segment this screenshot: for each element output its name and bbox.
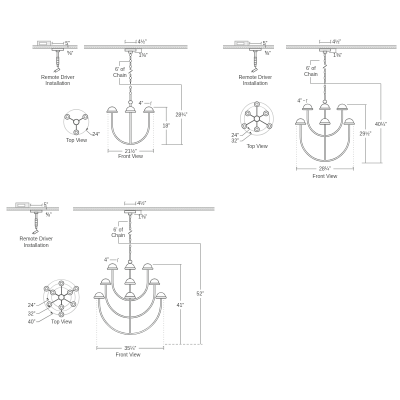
svg-text:40¼”: 40¼” <box>375 122 387 128</box>
ceiling strip Q3 remote <box>7 208 60 211</box>
Q3 cup tier2 right <box>149 279 160 285</box>
Q1 dim 21 1/2-inch <box>108 148 154 155</box>
Q1 dimension 5" <box>52 41 70 47</box>
svg-text:Chain: Chain <box>111 233 125 239</box>
Q1 top view boundary circles <box>64 109 89 134</box>
Q3 dim 35 1/4-inch <box>97 346 164 352</box>
Q3 extension lines width <box>97 300 164 348</box>
ceiling strip Q2 main <box>286 46 397 49</box>
Q1 dimension 4 1/2" <box>125 38 147 45</box>
Q2 chain <box>322 53 327 83</box>
Q2 top view leader 32&#8221; <box>231 132 251 145</box>
Q3 inner arm U <box>113 270 148 300</box>
Q2 top view centre hub <box>254 116 260 122</box>
Q1 dimension 1 3/8" <box>135 49 148 59</box>
Q1 finial <box>129 101 133 104</box>
Q3 dimension 4 1/2" <box>125 200 147 207</box>
Q1 cup centre <box>125 107 136 113</box>
svg-text:4”: 4” <box>104 258 109 264</box>
svg-text:32”: 32” <box>28 311 36 317</box>
Q2 dim 29 1/2-inch <box>359 105 371 163</box>
Q2 remote canopy and driver stem <box>250 48 262 66</box>
svg-text:Top View: Top View <box>51 319 72 325</box>
Q3 dimension 5" <box>30 203 48 209</box>
Q3 dim 41-inch <box>177 264 185 344</box>
svg-text:4½”: 4½” <box>332 38 341 45</box>
Q1 lower chain <box>130 86 132 95</box>
ceiling strip Q2 remote <box>223 46 274 49</box>
Q3 cup tier1 right <box>142 264 153 270</box>
Q2 centre stem <box>324 103 326 161</box>
Q3 finial <box>128 260 132 263</box>
svg-text:4½”: 4½” <box>138 38 147 45</box>
Q1 arm U <box>112 113 149 144</box>
Q3 hang rod <box>129 255 131 261</box>
svg-text:Installation: Installation <box>45 81 70 87</box>
Q3 dim 52-inch <box>197 243 205 344</box>
ceiling strip Q1 remote <box>33 46 78 49</box>
Q3 remote driver box <box>16 203 29 208</box>
svg-text:32”: 32” <box>231 139 239 145</box>
svg-text:Top View: Top View <box>66 138 87 144</box>
Q2 cup tier1 centre <box>320 104 331 110</box>
Q2 extension lines width <box>296 126 353 169</box>
svg-text:40”: 40” <box>28 320 36 326</box>
svg-text:28¼”: 28¼” <box>319 167 331 173</box>
Q1 dim 28 3/4-inch <box>175 85 187 145</box>
Q2 canopy <box>320 49 331 53</box>
Q1 bottom tick line <box>162 144 184 146</box>
Q2 remote driver box <box>235 41 248 46</box>
svg-text:18”: 18” <box>162 123 170 129</box>
Q1 hang rod <box>130 95 132 101</box>
Q2 bottom tick line <box>362 162 383 164</box>
svg-text:Front View: Front View <box>313 174 338 180</box>
Q1 centre stem <box>130 104 132 144</box>
Q3 top view centre hub <box>59 295 65 301</box>
Q3 cup tier1 left <box>107 264 118 270</box>
Q2 cup tier2 centre <box>320 119 331 125</box>
svg-text:4”: 4” <box>139 101 144 107</box>
Q3 6-foot chain bracket <box>111 222 127 244</box>
Q2 lower chain <box>324 85 326 95</box>
Q3 cup tier2 centre <box>125 279 136 285</box>
Q3 top view leader 32&#8221; <box>28 305 51 317</box>
svg-text:52”: 52” <box>197 292 205 298</box>
Q3 middle arm U <box>106 285 155 318</box>
Q1 leader to overall-height dim <box>120 84 182 86</box>
Q2 dimension 1 3/8" <box>329 49 342 59</box>
Q1 label <box>41 75 75 87</box>
Q3 cup tier3 left <box>94 292 105 298</box>
svg-text:⅝”: ⅝” <box>46 213 52 219</box>
Q3 top view leader 24&#8221; <box>28 298 49 309</box>
Q2 top view arms and sockets <box>244 104 269 129</box>
svg-text:⅝”: ⅝” <box>265 51 271 57</box>
svg-text:Remote Driver: Remote Driver <box>19 237 53 243</box>
svg-text:Chain: Chain <box>113 73 127 79</box>
Q2 dimension 5" <box>250 41 268 47</box>
Q2 dim 40 1/4-inch <box>375 84 387 163</box>
svg-text:Remote Driver: Remote Driver <box>239 75 273 81</box>
svg-text:Remote Driver: Remote Driver <box>41 75 75 81</box>
Q1 top view centre hub <box>74 119 80 125</box>
Q3 cup tier2 left <box>100 279 111 285</box>
Q2 top view leader 24&#8221; <box>231 127 249 139</box>
Q1 top view leader 24&#8221; <box>86 128 100 138</box>
Q3 cup tier3 centre <box>125 292 136 298</box>
Q2 top tick 29 1/2-inch <box>347 104 367 106</box>
svg-text:29½”: 29½” <box>359 131 371 138</box>
Q2 dim 28 1/4-inch <box>296 167 353 173</box>
Q3 top view leader 40&#8221; <box>28 312 53 326</box>
Q1 canopy <box>125 49 136 53</box>
Q3 wire pigtail <box>32 228 38 234</box>
Q1 remote driver box <box>37 41 50 46</box>
Q2 label <box>239 75 273 87</box>
Q3 candle 4-inch dim <box>104 258 119 264</box>
Q1 dim 18-inch <box>162 107 170 144</box>
Q1 candle 4-inch dim <box>139 101 152 107</box>
ceiling strip Q1 main <box>84 46 188 49</box>
svg-text:Top View: Top View <box>247 144 268 150</box>
Q3 lower chain <box>129 244 131 254</box>
svg-text:Chain: Chain <box>304 72 318 78</box>
Q1 remote canopy and driver stem <box>52 48 64 66</box>
Q1 extension lines width <box>108 114 154 151</box>
Q3 cup tier1 centre <box>125 264 136 270</box>
Q2 cup tier1 right <box>337 104 348 110</box>
Q2 wire pigtail <box>251 67 257 73</box>
svg-text:35¼”: 35¼” <box>124 346 136 352</box>
Q3 top view boundary circles <box>44 280 80 316</box>
Q3 top view arms and sockets <box>47 283 77 314</box>
Q1 top view arms and sockets <box>67 117 85 133</box>
Q2 cup tier2 right <box>344 119 355 125</box>
Q2 leader to overall-height dim <box>311 83 381 85</box>
svg-text:Front View: Front View <box>116 352 141 358</box>
Q1 chain <box>128 53 133 84</box>
svg-text:24”: 24” <box>28 303 36 309</box>
Q2 outer arm U <box>301 125 350 161</box>
svg-text:⅝”: ⅝” <box>67 51 73 57</box>
Q3 canopy <box>125 211 136 215</box>
Q2 dimension 5/8" <box>265 44 271 57</box>
Q2 6-foot chain bracket <box>304 60 319 83</box>
svg-text:Installation: Installation <box>24 243 49 249</box>
svg-text:4½”: 4½” <box>137 200 146 207</box>
svg-text:Front View: Front View <box>118 154 143 160</box>
Q3 outer arm U <box>99 299 161 334</box>
Q3 bottom tick line <box>165 343 203 345</box>
Q2 cup tier1 left <box>302 104 313 110</box>
svg-text:1⅜”: 1⅜” <box>333 53 342 59</box>
svg-text:Installation: Installation <box>243 81 268 87</box>
svg-text:1⅜”: 1⅜” <box>139 53 148 59</box>
Q1 6-foot chain bracket <box>113 61 129 84</box>
Q2 dimension 4 1/2" <box>320 38 342 45</box>
Q2 hang rod <box>324 95 326 100</box>
Q3 dimension 5/8" <box>46 206 52 219</box>
svg-text:41”: 41” <box>177 303 185 309</box>
Q1 cup left <box>107 107 118 113</box>
Q3 leader to overall-height dim <box>119 242 201 244</box>
svg-text:4”: 4” <box>297 98 302 104</box>
ceiling strip Q3 main <box>73 208 215 211</box>
Q2 cup tier2 left <box>295 119 306 125</box>
Q1 cup right <box>144 107 155 113</box>
Q1 wire pigtail <box>54 67 60 73</box>
Q2 inner arm U <box>308 110 343 136</box>
svg-text:28¾”: 28¾” <box>175 112 187 118</box>
Q3 cup tier3 right <box>156 292 167 298</box>
Q3 top tick 41-inch <box>153 263 182 265</box>
Q3 label <box>19 237 53 249</box>
Q2 top view boundary circles <box>240 102 273 135</box>
svg-text:1⅜”: 1⅜” <box>138 215 147 221</box>
Q2 candle 4-inch dim <box>297 98 307 104</box>
svg-text:24”: 24” <box>92 132 100 138</box>
Q3 dimension 1 3/8" <box>134 211 147 221</box>
Q3 remote canopy and driver stem <box>30 210 42 228</box>
Q3 chain <box>128 215 133 243</box>
Q1 top tick 18-inch <box>154 106 168 108</box>
Q2 finial <box>323 100 327 103</box>
Q3 centre stem <box>129 263 131 333</box>
Q1 dimension 5/8" <box>67 44 73 57</box>
